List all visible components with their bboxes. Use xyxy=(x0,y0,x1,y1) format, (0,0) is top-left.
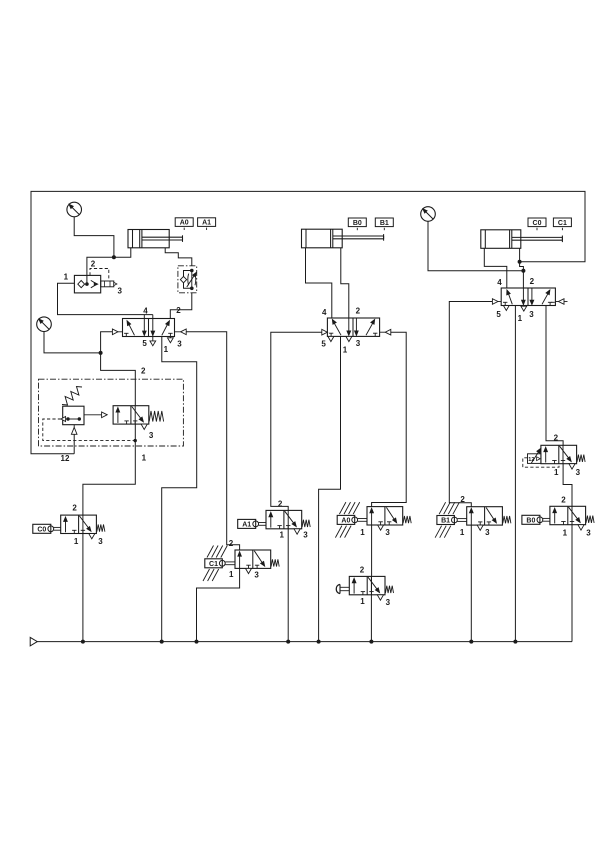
svg-text:3: 3 xyxy=(149,431,154,440)
cylinder 1A (double-acting) xyxy=(128,230,183,248)
flow control internals: check valve branch and throttle xyxy=(180,269,196,290)
valve 1S2/A1 (3/2-way, body) xyxy=(266,510,310,534)
port label 2 of valve 2V xyxy=(356,306,361,315)
port label 3 of valve 2S1 xyxy=(386,598,391,607)
port label 4 of valve 2V xyxy=(322,308,327,317)
wire: supply manifold line xyxy=(37,641,572,643)
svg-text:A1: A1 xyxy=(242,522,251,529)
pressure gauge Z2 xyxy=(37,317,52,332)
wire: pilot 12 of valve 2V to limit valve 2S2 port 2 xyxy=(372,332,407,506)
svg-text:2: 2 xyxy=(229,539,234,548)
port label 1 of valve 2S2 xyxy=(360,528,365,537)
port label 5 of valve 3V xyxy=(496,310,501,319)
wire: gauge Z2 to node N2 xyxy=(44,332,101,353)
valve 2V (5/2-way double pilot) xyxy=(327,318,379,342)
node N4 junction xyxy=(521,269,525,273)
wire: gauge Z3 to node N4 xyxy=(428,221,523,270)
wire: gauge Z1 to node N1 xyxy=(74,217,114,257)
svg-text:1: 1 xyxy=(142,454,147,463)
svg-text:3: 3 xyxy=(576,468,581,477)
wire: cylinder 2B left port to valve 2V port 4 xyxy=(306,248,332,318)
port label 2 of valve 1S2 xyxy=(278,499,283,508)
valve 1V (5/2-way double pilot) xyxy=(123,315,175,346)
svg-text:1: 1 xyxy=(360,597,365,606)
wire: sequence valve port 1 down to valve 3S2 port 2 xyxy=(83,424,135,515)
sequence valve setting spring xyxy=(62,387,82,406)
valve 3S2/C0 (3/2-way, body) xyxy=(61,515,105,539)
svg-text:4: 4 xyxy=(143,307,148,316)
dashed pilot line of valve 3V2 xyxy=(523,458,559,467)
port label 5 of valve 1V xyxy=(142,339,147,348)
dashed pilot box of quick-exhaust valve xyxy=(90,269,109,280)
svg-text:1: 1 xyxy=(229,570,234,579)
pilot 12 of valve 3V (right, unconnected stub) xyxy=(555,299,567,305)
port label 1 of valve 1S2 xyxy=(280,530,285,539)
svg-text:2: 2 xyxy=(91,259,96,268)
position label B0 xyxy=(348,218,366,230)
cylinder 2B (double-acting) xyxy=(302,229,384,248)
port label 3 of valve 3V2 xyxy=(576,468,581,477)
port label 2 of valve 2S1 xyxy=(360,566,365,575)
one-way flow control valve 1V2 (dash-dot enclosure) xyxy=(178,266,197,293)
cylinder 3C (double-acting) xyxy=(481,230,563,249)
pushbutton actuator of valve 2S1 xyxy=(336,584,349,593)
svg-text:3: 3 xyxy=(254,571,259,580)
junction on supply manifold at valve 2V xyxy=(317,640,321,644)
port label 1 of valve 2S3 xyxy=(563,528,568,537)
svg-text:5: 5 xyxy=(496,310,501,319)
wire: cylinder 3C right port to node N3 xyxy=(519,248,521,261)
svg-text:1: 1 xyxy=(360,528,365,537)
port label 1 of valve 2S1 xyxy=(360,597,365,606)
port label 4 of valve 3V xyxy=(497,278,502,287)
port label 2 of valve 3S2 xyxy=(72,504,77,513)
port label 1 of valve 2V xyxy=(343,345,348,354)
pilot port 12 box of valve 3V2 xyxy=(528,454,542,464)
svg-text:B0: B0 xyxy=(353,220,362,227)
pilot 12 of valve 1V (right) xyxy=(175,329,187,335)
wire: flow control valve to valve 1V port 2 xyxy=(170,293,192,319)
node N2 junction xyxy=(99,351,103,355)
wire: valve 2S1 through-port line and down to supply manifold xyxy=(370,576,372,641)
valve 2S1 (start pushbutton) (3/2-way, body) xyxy=(349,576,393,600)
position label B1 xyxy=(375,218,393,230)
svg-text:12: 12 xyxy=(61,454,70,463)
valve 1S3/C1 (limit, actuated) (3/2-way, body, actuated position) xyxy=(235,550,279,574)
pilot 14 of valve 2V (left) xyxy=(322,329,328,335)
roller actuator and label B0 of valve 2S3 xyxy=(522,515,550,524)
valve 3S1/B1 (limit, actuated) (3/2-way, body, actuated position) xyxy=(467,507,511,531)
port label 3 of valve 2S3 xyxy=(586,529,591,538)
actuation arrow of valve 3V2 xyxy=(531,448,541,463)
pilot 12 of valve 2V (right) xyxy=(380,329,391,335)
junction on supply manifold at valve 3S2 xyxy=(81,640,85,644)
svg-text:C1: C1 xyxy=(209,561,218,568)
port label 2 of valve 3V xyxy=(530,277,535,286)
svg-text:B1: B1 xyxy=(441,518,450,525)
wire: valve 2V port 1 to supply manifold xyxy=(319,336,341,641)
port label 5 of valve 2V xyxy=(321,339,326,348)
svg-text:3: 3 xyxy=(356,339,361,348)
wire: cylinder 1A left port to node N1 and quick-exhaust valve port 2 xyxy=(87,248,131,284)
svg-text:B0: B0 xyxy=(526,518,535,525)
svg-text:2: 2 xyxy=(176,306,181,315)
port label 1 of valve 3V2 xyxy=(554,468,559,477)
svg-text:3: 3 xyxy=(485,528,490,537)
svg-text:1: 1 xyxy=(460,528,465,537)
port label 3 of valve 3S1 xyxy=(485,528,490,537)
valve 2S2/A0 (limit, actuated) (3/2-way, body, actuated position) xyxy=(367,507,411,531)
port label 4 of valve 1V xyxy=(143,307,148,316)
svg-text:1: 1 xyxy=(343,345,348,354)
port label 1 of ZV xyxy=(64,273,69,282)
svg-text:3: 3 xyxy=(386,598,391,607)
wire: quick-exhaust valve port 1 down to valve 1V port 4 xyxy=(58,283,153,314)
wire: pilot 12 of valve 1V to limit valve 1S3 port 2 xyxy=(186,332,239,550)
wire: valve 3V port 3 side down to pilot valve 3V2 port 2 xyxy=(546,306,563,446)
quick-exhaust valve ZV (ports 1,2,3) xyxy=(74,275,117,293)
svg-text:3: 3 xyxy=(586,529,591,538)
port label 2 of valve 1S3 xyxy=(229,539,234,548)
wire: pilot sensing loop (port 12 of sequence valve around page top to cylinder 2C node) xyxy=(31,191,585,453)
port label 3 of ZV xyxy=(118,287,123,296)
wire: cylinder 2B right port to valve 2V port 2 xyxy=(341,248,349,318)
svg-text:A0: A0 xyxy=(180,220,189,227)
sequence valve control element xyxy=(61,406,84,425)
junction on supply manifold at valve 3S1 xyxy=(469,640,473,644)
svg-text:1: 1 xyxy=(164,345,169,354)
junction on supply manifold at valve 1S3 xyxy=(195,640,199,644)
port label 2 of valve 3V2 xyxy=(554,433,559,442)
port label 1 of valve 1V xyxy=(164,345,169,354)
port label 2 of valve 2S3 xyxy=(561,495,566,504)
wire: cylinder 1A right port to flow control valve xyxy=(165,248,192,266)
svg-text:5: 5 xyxy=(142,339,147,348)
pressure sequence valve 1V1 (dash-dot enclosure) xyxy=(39,379,184,446)
port label 3 of valve 1S2 xyxy=(303,531,308,540)
position label C1 xyxy=(553,218,571,230)
wire: valve 1S2 port 1 to supply manifold xyxy=(287,529,289,642)
port label 1 of sequence valve xyxy=(142,454,147,463)
svg-text:3: 3 xyxy=(177,339,182,348)
wire: sequence valve port 12 to pilot loop xyxy=(73,434,75,454)
svg-text:3: 3 xyxy=(529,310,534,319)
wire: valve 1V port 1 to supply manifold xyxy=(162,337,197,642)
valve 2S3/B0 (3/2-way, body) xyxy=(550,506,594,530)
svg-text:A0: A0 xyxy=(341,518,350,525)
svg-text:B1: B1 xyxy=(380,220,389,227)
port label 3 of valve 2S2 xyxy=(385,528,390,537)
svg-text:3: 3 xyxy=(118,287,123,296)
svg-text:2: 2 xyxy=(530,277,535,286)
svg-text:1: 1 xyxy=(74,537,79,546)
port label 2 of valve 1V xyxy=(176,306,181,315)
node N1 junction xyxy=(112,255,116,259)
wire: valve 2S2 port 1 down to start valve 2S1 port 2 xyxy=(371,525,373,577)
svg-text:1: 1 xyxy=(280,530,285,539)
port label 1 of valve 3S2 xyxy=(74,537,79,546)
wire: valve 3S1 port 1 to supply manifold xyxy=(470,525,472,642)
svg-text:3: 3 xyxy=(303,531,308,540)
svg-text:4: 4 xyxy=(322,308,327,317)
svg-text:2: 2 xyxy=(72,504,77,513)
svg-text:1: 1 xyxy=(563,528,568,537)
svg-text:2: 2 xyxy=(278,499,283,508)
valve 3V (5/2-way double pilot) xyxy=(501,288,555,311)
junction on supply manifold at valve 2S1 xyxy=(369,640,373,644)
svg-text:A1: A1 xyxy=(202,220,211,227)
junction on supply manifold at valve 3V xyxy=(513,640,517,644)
dashed internal pilot line of sequence valve xyxy=(43,419,137,442)
wire: node N3 jog down to node N4 xyxy=(520,262,524,271)
svg-text:2: 2 xyxy=(360,566,365,575)
svg-text:2: 2 xyxy=(356,306,361,315)
svg-text:C0: C0 xyxy=(533,220,542,227)
roller actuator and label A1 of valve 1S2 xyxy=(238,519,266,528)
svg-text:1: 1 xyxy=(518,314,523,323)
wire: valve 2S3 port 1 to supply manifold end xyxy=(571,525,573,642)
hatch mounting and label C1 of valve 1S3 xyxy=(203,546,235,582)
pilot 14 of valve 1V (left) xyxy=(112,329,122,335)
port label 1 of valve 3S1 xyxy=(460,528,465,537)
port label 1 of valve 1S3 xyxy=(229,570,234,579)
port label 12 of sequence valve xyxy=(61,454,70,463)
svg-text:C0: C0 xyxy=(37,527,46,534)
svg-text:2: 2 xyxy=(554,433,559,442)
svg-text:1: 1 xyxy=(554,468,559,477)
svg-text:C1: C1 xyxy=(558,220,567,227)
svg-text:2: 2 xyxy=(141,366,146,375)
wire: node N2 up to pilot 14 of valve 1V xyxy=(101,332,113,353)
junction on supply manifold at valve 1V xyxy=(160,640,164,644)
port label 2 of sequence valve xyxy=(141,366,146,375)
wire: cylinder 3C left port to valve 3V port 4 xyxy=(484,248,507,288)
pressure gauge Z3 xyxy=(421,207,436,222)
pilot 14 of valve 3V (left) xyxy=(492,299,501,305)
port label 3 of valve 2V xyxy=(356,339,361,348)
port label 3 of sequence valve xyxy=(149,431,154,440)
port label 3 of valve 3S2 xyxy=(98,537,103,546)
wire: sequence valve port 2 up to node N2 xyxy=(101,353,136,406)
svg-text:3: 3 xyxy=(385,528,390,537)
svg-text:4: 4 xyxy=(497,278,502,287)
node N3 junction (cylinder 3C rod-side) xyxy=(518,260,522,264)
wire: valve 3S1 port 2 up to pilot 14 of valve 2V xyxy=(271,332,322,511)
wire: pilot 14 of valve 3V to limit valve 3S2 port 2 xyxy=(449,302,492,507)
hatch mounting and label A0 of valve 2S2 xyxy=(335,502,367,537)
compressed air supply source xyxy=(30,637,37,646)
wire: node N4 down to valve 3V port 2 xyxy=(522,271,524,288)
roller actuator and label C0 of valve 3S2 xyxy=(33,524,61,533)
position label A1 xyxy=(198,218,216,230)
svg-text:2: 2 xyxy=(561,495,566,504)
position label A0 xyxy=(175,218,193,230)
port label 2 of ZV xyxy=(91,259,96,268)
valve 3V2 (pilot operated) (3/2-way, body) xyxy=(541,445,585,469)
pressure gauge Z1 xyxy=(67,202,82,217)
port label 1 of valve 3V xyxy=(518,314,523,323)
svg-text:1: 1 xyxy=(64,273,69,282)
wire: valve 3V2 port 1 down to valve 3S3 port 2 xyxy=(563,464,572,507)
pilot port 12 arrow of sequence valve xyxy=(71,425,77,435)
port label 3 of valve 3V xyxy=(529,310,534,319)
wire: valve 3S2 port 1 to supply manifold xyxy=(82,534,84,642)
svg-text:2: 2 xyxy=(460,495,465,504)
port label 3 of valve 1S3 xyxy=(254,571,259,580)
pilot arrow between control element and 3/2 valve of 1V1 xyxy=(84,412,107,418)
junction on supply manifold at valve 1S2 xyxy=(286,640,290,644)
port label 3 of valve 1V xyxy=(177,339,182,348)
port label 2 of valve 3S1 xyxy=(460,495,465,504)
valve 1V1.1 (3/2-way, body) xyxy=(113,406,164,430)
position label C0 xyxy=(528,218,546,230)
wire: valve 3V port 1 to supply manifold xyxy=(514,306,516,642)
svg-text:5: 5 xyxy=(321,339,326,348)
wire: valve 1S3 port 1 to supply manifold xyxy=(197,568,240,641)
hatch mounting and label B1 of valve 3S1 xyxy=(435,502,467,538)
svg-text:3: 3 xyxy=(98,537,103,546)
